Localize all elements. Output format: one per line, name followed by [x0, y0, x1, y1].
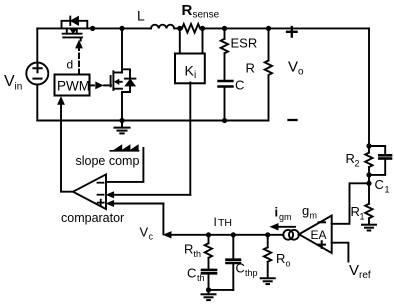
capacitor across R2	[369, 146, 391, 175]
node sense tap right dot	[200, 26, 205, 31]
svg-text:L: L	[137, 8, 145, 24]
label Vc	[140, 225, 154, 242]
label Rth	[184, 242, 201, 260]
wire R load bottom riser	[268, 77, 270, 121]
svg-text:I: I	[214, 215, 217, 229]
node C bottom dot	[222, 118, 227, 123]
svg-text:R: R	[246, 61, 255, 76]
block Ki current sense gain	[175, 54, 205, 84]
node ITH junction dot at Ro	[265, 232, 270, 237]
wire arrowhead into PWM	[58, 97, 64, 104]
svg-text:2: 2	[355, 159, 360, 169]
svg-text:C: C	[375, 177, 384, 192]
node Cthp branch dot	[231, 232, 236, 237]
svg-text:PWM: PWM	[57, 79, 90, 94]
svg-text:V: V	[4, 73, 15, 90]
resistor R2	[365, 146, 372, 175]
wire comparator plus riser	[162, 204, 164, 235]
wire bottom rail	[37, 120, 268, 122]
wire ITH rail	[171, 234, 268, 236]
inductor L	[151, 25, 174, 29]
wire Vin bottom lead	[36, 85, 38, 121]
wire slope comp to comparator top input	[106, 148, 143, 182]
wire Ki output down to comparator	[189, 83, 191, 195]
ground below Cth	[202, 290, 216, 300]
label Ro	[276, 251, 291, 269]
wire Cthp bottom link	[209, 289, 234, 291]
capacitor C output	[219, 81, 233, 87]
label Cthp	[236, 261, 258, 279]
node switch rail dot B	[119, 26, 124, 31]
wire output right side down	[368, 28, 370, 146]
svg-text:R: R	[351, 204, 360, 219]
label minus output	[289, 119, 297, 121]
resistor Rth	[205, 235, 212, 269]
node ground junction dot	[206, 287, 211, 292]
wire C top stub	[224, 53, 226, 80]
wire dashed PWM to Q2 gate	[90, 84, 97, 86]
label comparator plus	[98, 200, 104, 206]
wire Cth bottom	[208, 275, 210, 290]
capacitor Cthp	[227, 235, 241, 290]
svg-text:ref: ref	[359, 270, 371, 281]
resistor R load	[265, 28, 272, 75]
svg-text:thp: thp	[245, 268, 258, 278]
node R load top dot	[266, 26, 271, 31]
svg-text:C: C	[236, 261, 245, 276]
node Rth branch dot	[206, 232, 211, 237]
node bottom rail dot at NMOS	[119, 118, 124, 123]
wire C bottom to rail	[224, 88, 226, 121]
svg-text:EA: EA	[311, 228, 327, 242]
svg-text:1: 1	[385, 185, 390, 195]
label R2	[346, 151, 360, 169]
svg-text:d: d	[67, 58, 74, 72]
wire current source to ITH node	[268, 234, 284, 236]
svg-text:i: i	[194, 70, 196, 81]
label gm	[302, 203, 317, 221]
capacitor Cth	[202, 270, 216, 273]
wire EA plus input to Vref	[332, 243, 349, 262]
wire top rail mid (inductor to Rsense)	[174, 27, 182, 29]
resistor Ro	[264, 235, 271, 278]
label ITH	[214, 215, 233, 229]
label C1	[375, 177, 390, 195]
resistor R1	[365, 175, 372, 224]
wire comparator plus input	[112, 203, 164, 205]
node C1 dot lower feedback tap	[366, 181, 371, 186]
label Cth	[187, 266, 205, 284]
svg-text:gm: gm	[279, 212, 292, 222]
svg-text:g: g	[302, 203, 309, 218]
wire sense right lead into Ki	[202, 28, 204, 52]
node switch rail dot A	[90, 26, 95, 31]
svg-text:C: C	[187, 266, 196, 281]
transistor Q1 high-side MOSFET	[63, 28, 82, 40]
voltage source Vin	[26, 63, 48, 85]
resistor Rsense	[182, 24, 200, 33]
svg-text:1: 1	[360, 212, 365, 222]
label Rsense	[182, 2, 220, 21]
svg-text:TH: TH	[218, 217, 232, 229]
svg-text:sense: sense	[193, 10, 220, 21]
ground below R1	[362, 225, 376, 231]
svg-text:R: R	[346, 151, 355, 166]
wire top rail left (Vin top to inductor)	[37, 27, 151, 29]
wire top rail right (Rsense to output corner)	[203, 27, 370, 29]
ground below NMOS	[115, 121, 130, 134]
label igm	[275, 205, 292, 223]
label comparator minus top	[98, 182, 104, 184]
wire feedback tap to EA minus	[332, 183, 369, 224]
diode D1 body diode of Q1	[62, 17, 88, 29]
svg-text:R: R	[276, 251, 285, 266]
svg-text:C: C	[235, 78, 244, 93]
label EA plus	[319, 241, 326, 248]
waveform slope comp sawtooth	[110, 145, 138, 151]
wire sense left lead into Ki	[179, 28, 181, 52]
svg-text:ESR: ESR	[231, 36, 258, 51]
svg-text:th: th	[197, 273, 205, 283]
transistor Q2 low-side MOSFET	[104, 71, 122, 90]
wire comparator output to PWM	[61, 104, 73, 192]
svg-text:slope comp: slope comp	[76, 154, 140, 168]
svg-text:comparator: comparator	[61, 211, 124, 225]
svg-text:c: c	[149, 232, 154, 242]
svg-text:R: R	[184, 242, 193, 257]
label EA minus	[319, 221, 326, 223]
svg-text:o: o	[298, 67, 304, 78]
svg-text:K: K	[185, 62, 195, 78]
wire Vc arrowhead	[164, 232, 171, 238]
comparator U1	[73, 174, 106, 209]
wire igm arrow	[271, 224, 295, 230]
node divider top dot	[366, 143, 371, 148]
wire NMOS source to bottom rail	[121, 92, 123, 121]
ground below Ro	[261, 278, 275, 284]
wire arrowhead d up	[76, 41, 82, 48]
node C1 dot upper	[366, 172, 371, 177]
wire Ki to comparator mid input	[112, 194, 191, 196]
wire arrowhead plus input	[107, 201, 114, 207]
svg-text:o: o	[286, 259, 291, 269]
label comparator minus mid	[98, 194, 104, 196]
label Vin	[4, 73, 22, 93]
node sense tap left dot	[177, 26, 182, 31]
wire dashed d gate drive up	[78, 48, 80, 75]
diode D2 body diode of Q2	[122, 69, 135, 92]
wire Vin top lead	[36, 28, 38, 62]
label Vo	[288, 59, 304, 78]
wire arrowhead mid input	[107, 192, 114, 198]
resistor ESR	[221, 28, 228, 53]
wire arrowhead to Q2 gate	[96, 82, 103, 88]
label Vref	[349, 262, 371, 281]
label plus output	[287, 27, 297, 37]
label R1	[351, 204, 365, 222]
svg-text:in: in	[15, 82, 23, 93]
current source gm output	[283, 230, 298, 240]
op-amp EA error amplifier	[299, 216, 332, 254]
wire NMOS drain	[121, 28, 123, 72]
svg-text:V: V	[140, 225, 149, 240]
svg-text:m: m	[310, 211, 318, 221]
svg-text:th: th	[194, 249, 202, 259]
svg-text:V: V	[349, 262, 359, 279]
svg-text:V: V	[288, 59, 298, 76]
block PWM	[55, 75, 90, 96]
svg-text:i: i	[275, 205, 279, 220]
svg-text:R: R	[182, 2, 193, 19]
node ESR top dot	[222, 26, 227, 31]
